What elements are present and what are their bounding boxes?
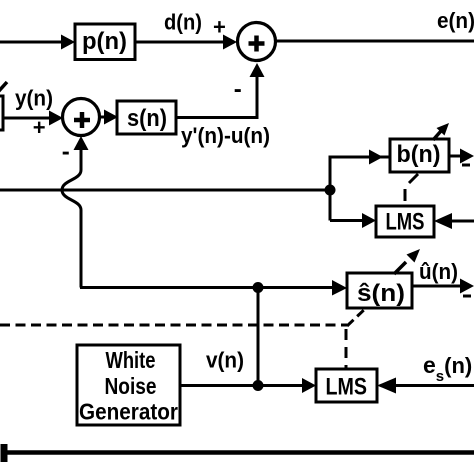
svg-text:b(n): b(n) [397, 141, 441, 168]
svg-text:White: White [106, 347, 156, 373]
svg-text:v(n): v(n) [206, 348, 244, 373]
adaptive arrow tip of cut block [0, 82, 7, 92]
adaptive arrow of s-hat(n) [394, 262, 406, 274]
wire summer 2 to s(n) [99, 116, 107, 119]
wire y(n) into summer 2 [2, 117, 52, 120]
label minus at right of u-hat output [463, 295, 471, 298]
junction dot v(n) wire [253, 380, 264, 391]
long reference wire [0, 189, 330, 192]
block P(z) p(n) [75, 24, 135, 60]
svg-text:û(n): û(n) [419, 259, 458, 284]
svg-text:LMS: LMS [326, 374, 368, 401]
wire junction to b(n) [330, 157, 390, 221]
svg-text:+: + [213, 15, 226, 40]
label minus at right of b(n) output [462, 164, 470, 167]
wire b(n) output [449, 155, 462, 158]
summing junction 1 [238, 23, 276, 61]
svg-text:d(n): d(n) [164, 10, 202, 35]
junction dot on reference wire [325, 185, 336, 196]
svg-text:p(n): p(n) [82, 28, 127, 55]
block White Noise Generator [77, 345, 180, 425]
feedback wire with crossover jog into summer 2 [62, 150, 81, 288]
adaptive arrow of b(n) [433, 131, 441, 140]
wire e_s(n) into LMS 2 from right [393, 384, 474, 387]
wire x(n) input to P(z) [0, 41, 64, 44]
svg-text:e(n): e(n) [437, 8, 474, 33]
block s-hat(n) [347, 273, 412, 308]
noise wire to s-hat [80, 286, 336, 289]
block LMS 2 [316, 369, 377, 402]
svg-text:LMS: LMS [386, 209, 425, 236]
wire e(n) output [275, 40, 474, 43]
block b(n) [390, 139, 449, 172]
svg-text:-: - [62, 139, 70, 166]
wire junction down to v(n) wire [257, 288, 260, 386]
wire u-hat output [412, 285, 462, 288]
wire into LMS 1 from right [448, 220, 474, 223]
svg-text:-: - [234, 76, 242, 103]
summing junction 2 [63, 99, 100, 136]
block LMS 1 [376, 206, 434, 237]
svg-text:y(n): y(n) [15, 86, 53, 111]
bottom wire left end cap [1, 444, 8, 462]
svg-text:ŝ(n): ŝ(n) [357, 280, 405, 307]
wire junction to LMS 1 [330, 219, 366, 222]
wire v(n) to LMS 2 [180, 384, 306, 387]
svg-text:s(n): s(n) [127, 105, 167, 132]
svg-text:Noise: Noise [105, 373, 157, 399]
long dashed divider [0, 324, 347, 327]
junction dot noise wire [253, 282, 264, 293]
block s(n) [117, 101, 176, 134]
dashed diagonal to s-hat(n) [347, 308, 366, 326]
dashed link b(n) to LMS 1 [409, 174, 418, 183]
svg-text:+: + [33, 115, 46, 140]
block cut off at left edge [0, 96, 3, 130]
svg-text:y'(n)-u(n): y'(n)-u(n) [181, 123, 270, 148]
bottom wire [2, 450, 474, 455]
wire p(n) to summer 1 [135, 41, 225, 44]
wire s(n) output up into summer 1 [176, 74, 257, 118]
svg-text:Generator: Generator [79, 399, 178, 425]
dashed link down to LMS 2 [345, 329, 348, 369]
